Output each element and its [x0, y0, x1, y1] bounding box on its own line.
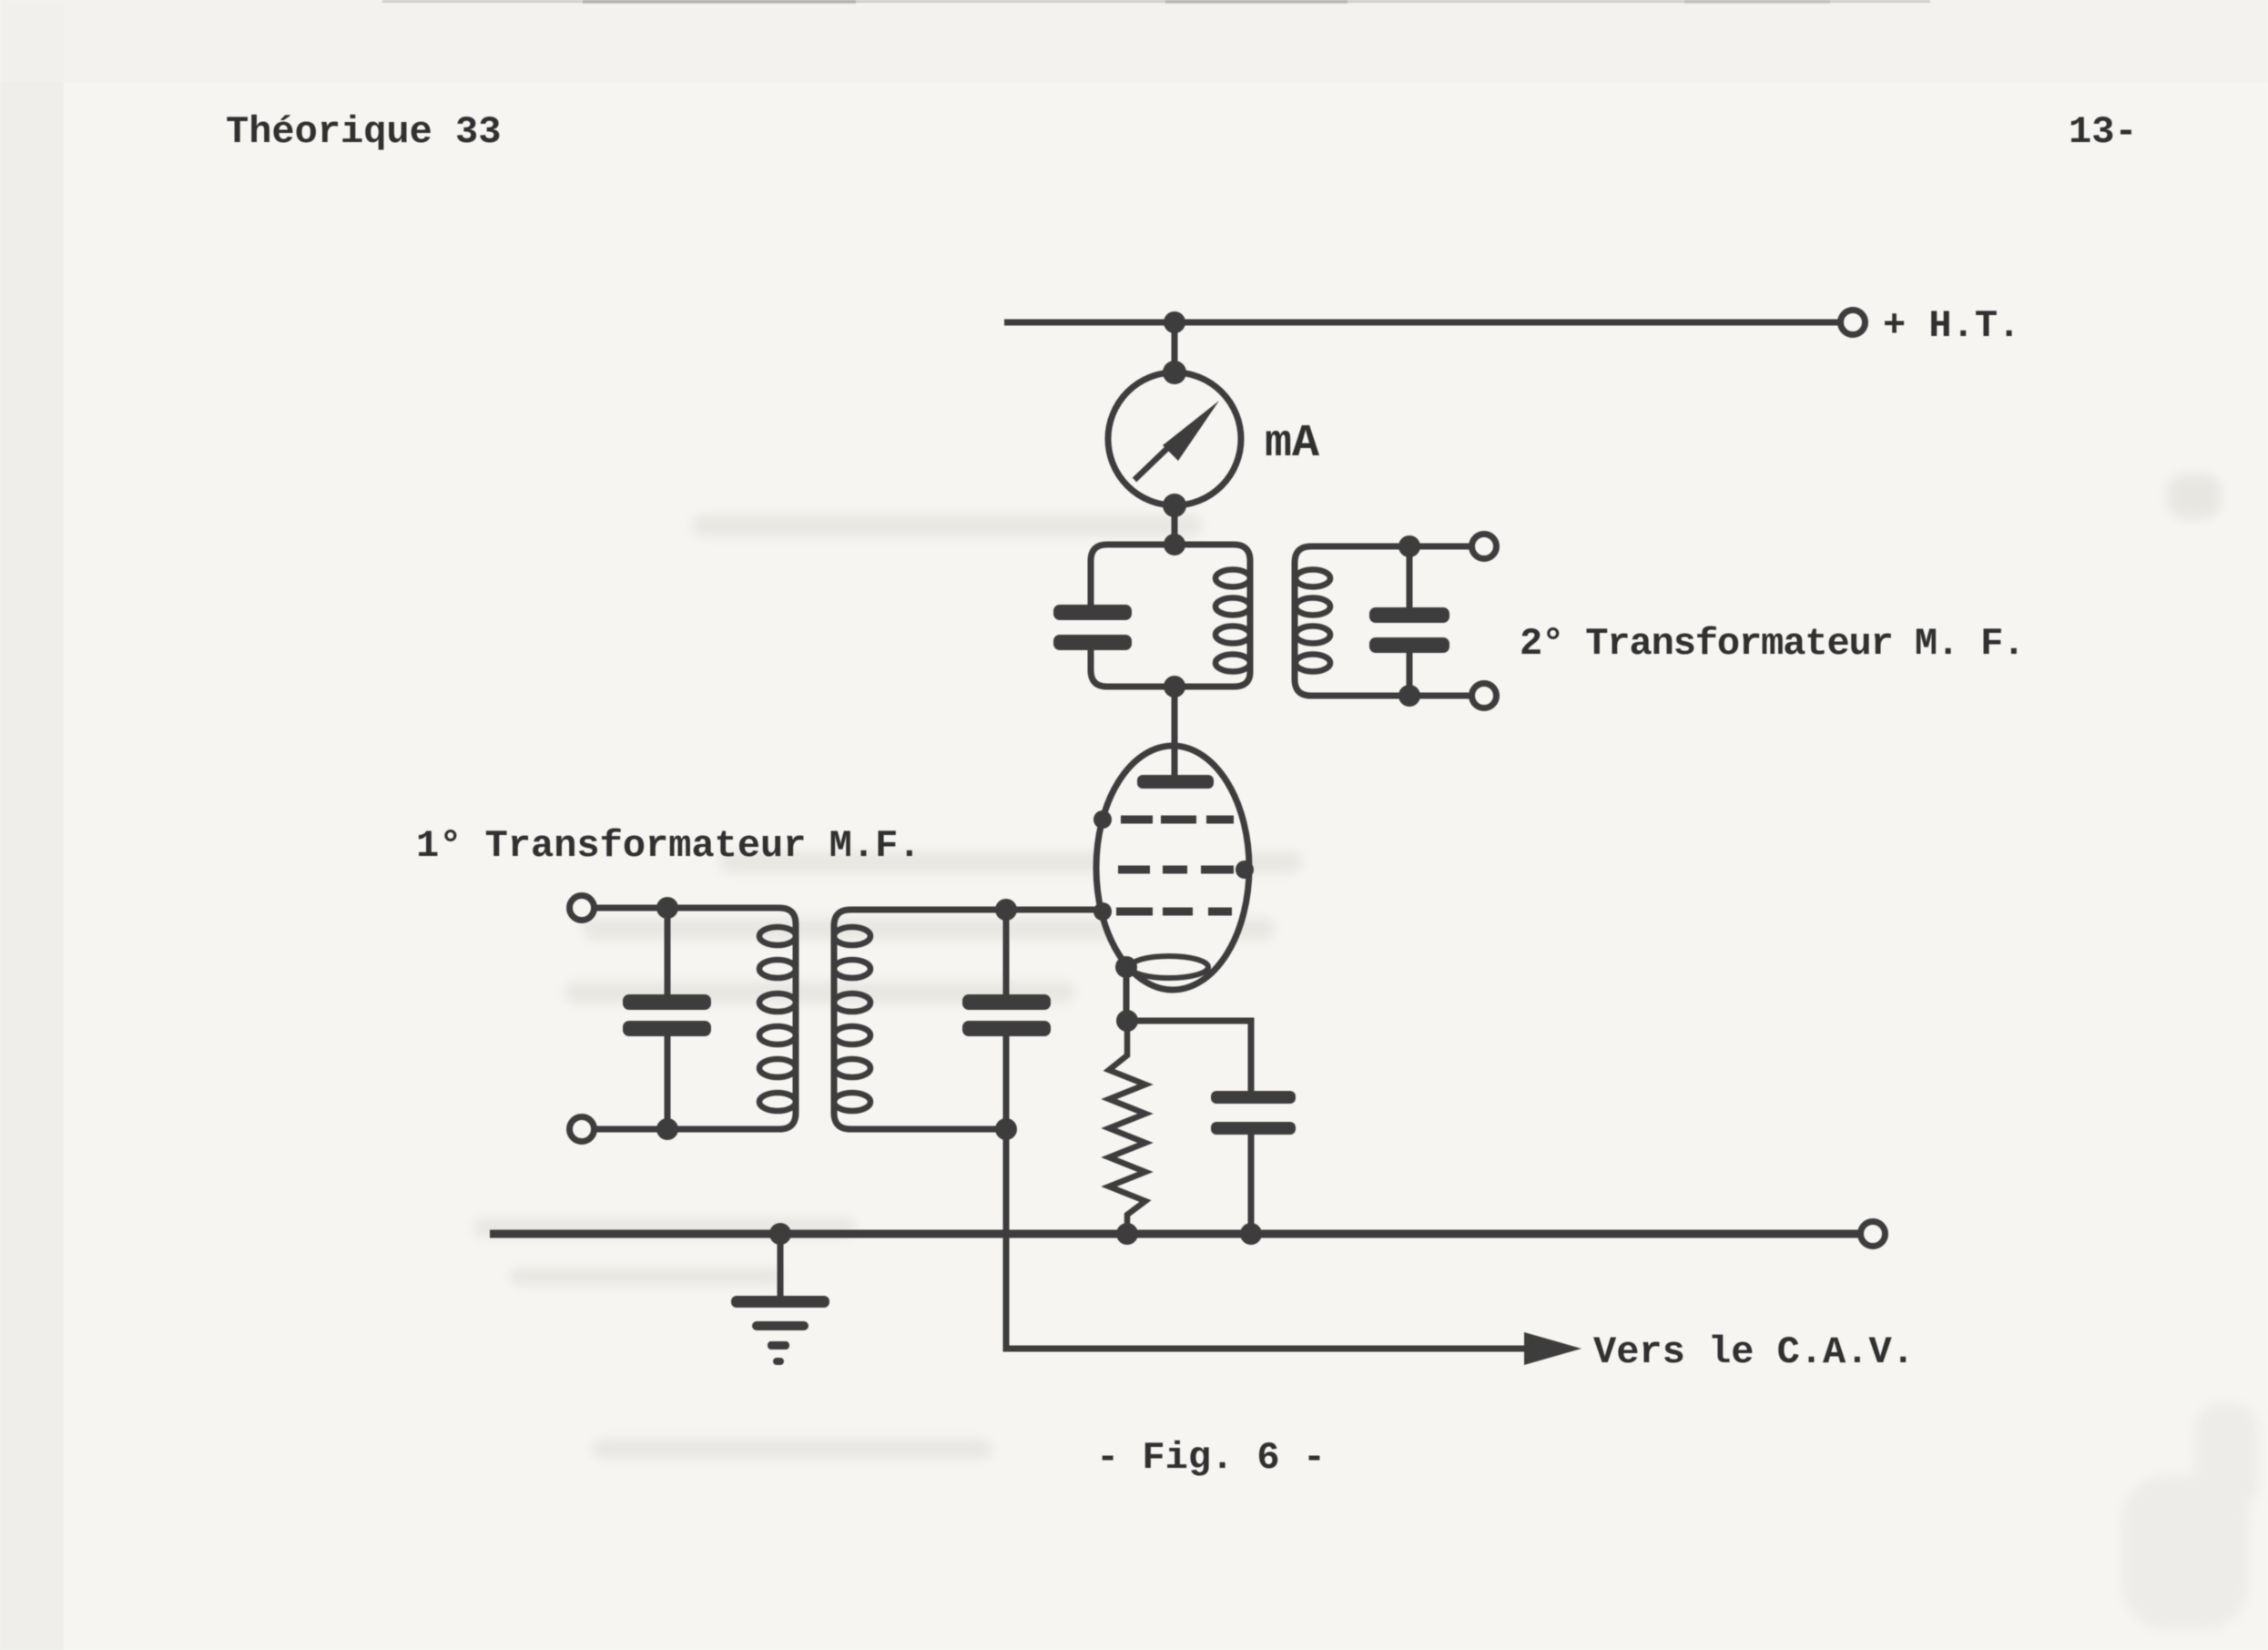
- coil L2 (2nd IF secondary): [1296, 570, 1330, 672]
- svg-text:1° Transformateur M.F.: 1° Transformateur M.F.: [416, 824, 921, 868]
- junction dot 1st IF primary bottom: [656, 1118, 678, 1140]
- wire cathode lead: [1124, 967, 1130, 1021]
- wire 2nd IF primary tank right (coil spine): [1175, 545, 1250, 687]
- pin dot g1: [1093, 902, 1112, 921]
- junction dot 1st IF primary top: [656, 897, 678, 919]
- pin dot g2: [1236, 861, 1254, 879]
- tube U1 grid g1 (dashed): [1116, 908, 1232, 916]
- capacitor C2 (2nd IF secondary tuning): [1369, 607, 1449, 653]
- wire 2nd IF secondary tank: [1295, 546, 1472, 696]
- terminal 2nd IF output top: [1472, 535, 1497, 559]
- tube U1 grid g3 (dashed): [1121, 816, 1234, 824]
- meter M1 top pin dot: [1163, 361, 1186, 384]
- terminal 2nd IF output bottom: [1472, 684, 1497, 708]
- terminal +H.T.: [1841, 311, 1866, 335]
- coil L4 (1st IF secondary): [834, 927, 870, 1111]
- coil L1 (2nd IF primary): [1215, 570, 1250, 672]
- wire ground bus (0 V rail): [490, 1230, 1860, 1238]
- wire rail to meter: [1172, 322, 1178, 375]
- wire 1st IF secondary tank to tube grid: [834, 910, 1103, 1129]
- junction dot 2nd IF secondary top: [1398, 535, 1420, 557]
- wire bypass capacitor to ground bus: [1248, 1135, 1255, 1234]
- meter M1 needle head: [1163, 401, 1219, 461]
- capacitor C1 (2nd IF primary tuning): [1053, 605, 1132, 650]
- arrowhead C.A.V.: [1524, 1332, 1581, 1365]
- terminal input bottom: [570, 1117, 595, 1142]
- wire 1st IF primary tank: [595, 908, 796, 1129]
- svg-text:Vers le C.A.V.: Vers le C.A.V.: [1593, 1330, 1915, 1374]
- tube U1 envelope (pentode): [1096, 746, 1249, 990]
- junction on H.T. rail: [1164, 311, 1185, 333]
- wire capacitor C2 top lead: [1407, 546, 1413, 609]
- wire 2nd IF primary tank left lower: [1091, 648, 1175, 687]
- tube U1 anode plate: [1137, 775, 1214, 789]
- capacitor C3 (1st IF primary tuning): [623, 994, 711, 1036]
- wire 2nd IF primary tank left/top/bottom: [1091, 545, 1175, 606]
- wire tank bottom to anode: [1172, 687, 1178, 781]
- svg-text:+ H.T.: + H.T.: [1883, 304, 2020, 348]
- junction dot AVC node: [995, 1118, 1017, 1140]
- ground symbol: [731, 1296, 829, 1365]
- capacitor C4 (1st IF secondary tuning): [962, 994, 1051, 1036]
- svg-text:2° Transformateur M. F.: 2° Transformateur M. F.: [1520, 622, 2024, 666]
- tube U1 cathode: [1130, 956, 1208, 978]
- wire capacitor C3 bottom lead: [665, 1036, 671, 1129]
- wire capacitor C2 bottom lead: [1407, 651, 1413, 696]
- ground stub: [778, 1234, 784, 1297]
- junction dot 2nd IF primary top: [1164, 534, 1185, 555]
- svg-text:mA: mA: [1265, 418, 1319, 470]
- terminal ground rail: [1861, 1222, 1886, 1247]
- svg-text:- Fig. 6 -: - Fig. 6 -: [1096, 1436, 1326, 1480]
- wire cathode to bypass capacitor: [1127, 1021, 1251, 1091]
- resistor Rk (cathode bias): [1109, 1021, 1145, 1234]
- coil L3 (1st IF primary): [759, 927, 796, 1111]
- junction dot 2nd IF primary bottom: [1164, 676, 1185, 698]
- pin dot g3: [1093, 810, 1112, 829]
- meter M1 bottom pin dot: [1163, 494, 1186, 517]
- wire capacitor C4 bottom lead: [1003, 1036, 1010, 1129]
- tube U1 grid g2 (dashed): [1118, 866, 1234, 874]
- junction dot ground tap: [769, 1223, 791, 1245]
- pin dot cathode: [1115, 956, 1137, 978]
- junction dot grid node: [995, 899, 1017, 921]
- junction dot resistor to bus: [1116, 1223, 1138, 1245]
- capacitor Ck (cathode bypass): [1211, 1091, 1296, 1135]
- svg-text:Théorique 33: Théorique 33: [226, 110, 501, 154]
- svg-text:13-: 13-: [2069, 110, 2138, 154]
- junction dot capacitor to bus: [1240, 1223, 1262, 1245]
- wire +H.T. supply rail: [1004, 320, 1840, 326]
- meter M1 body: [1108, 372, 1241, 505]
- junction dot 2nd IF secondary bottom: [1398, 685, 1420, 707]
- meter M1 needle: [1134, 434, 1182, 480]
- wire capacitor C3 top lead: [665, 908, 671, 995]
- wire to C.A.V.: [1006, 1129, 1528, 1349]
- wire capacitor C4 top lead: [1003, 910, 1010, 995]
- wire meter to 2nd IF primary tank: [1172, 505, 1178, 545]
- node K (cathode junction): [1116, 1010, 1138, 1032]
- terminal input top: [570, 896, 595, 921]
